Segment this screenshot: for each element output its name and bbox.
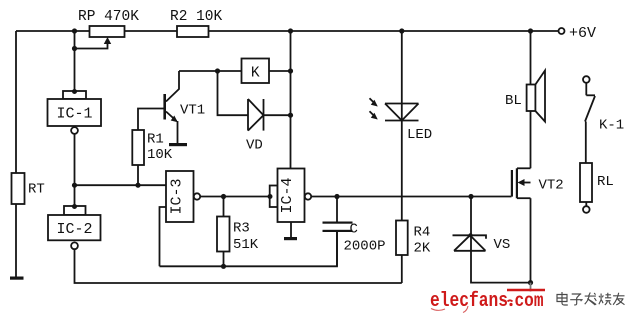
svg-text:VT2: VT2 [539, 178, 564, 194]
watermark chinese 电子发烧友 [557, 292, 625, 305]
switch K-1 [583, 76, 624, 133]
ground tick below source node [530, 283, 532, 292]
node VS top [468, 194, 473, 199]
svg-text:VD: VD [246, 138, 263, 154]
resistor R4 [396, 221, 431, 257]
wire IC-3 second input from bottom line [160, 207, 167, 266]
svg-text:RP 470K: RP 470K [78, 9, 139, 25]
svg-text:R2 10K: R2 10K [170, 9, 223, 25]
wire IC-1 feed vertical [74, 31, 76, 91]
svg-text:51K: 51K [233, 237, 259, 253]
svg-text:IC-4: IC-4 [279, 177, 296, 213]
node bus to LED [399, 28, 404, 33]
capacitor C [323, 197, 386, 267]
diode VD [218, 71, 291, 154]
wire R4 riser [401, 255, 403, 283]
svg-text:IC-3: IC-3 [169, 178, 186, 214]
发 [585, 293, 597, 306]
node K right [288, 68, 293, 73]
svg-text:R1: R1 [147, 132, 164, 148]
transistor VT2 MOSFET [511, 168, 564, 282]
op-amp IC-1 [48, 89, 102, 134]
svg-text:K: K [251, 66, 260, 82]
potentiometer RP body [90, 26, 125, 37]
node R1 bottom junction [135, 183, 140, 188]
svg-text:IC-2: IC-2 [56, 221, 92, 238]
resistor R3 [217, 197, 259, 267]
svg-text:+6V: +6V [569, 25, 596, 42]
node R3 bottom [221, 264, 226, 269]
zener diode VS [453, 197, 531, 283]
svg-text:R4: R4 [414, 225, 431, 241]
svg-text:IC-1: IC-1 [56, 106, 92, 123]
resistor RL [580, 122, 614, 213]
node VT2 source / VS net [528, 280, 533, 285]
potentiometer RP wiper arrow [104, 37, 111, 44]
thermistor RT [12, 173, 25, 204]
svg-text:2000P: 2000P [344, 239, 386, 255]
wire IC-2 feed [74, 185, 76, 206]
svg-text:2K: 2K [414, 241, 431, 257]
node IC-1/IC-2/R1 net [72, 183, 77, 188]
svg-text:RL: RL [597, 174, 614, 190]
svg-text:VT1: VT1 [180, 103, 205, 119]
子 [570, 294, 583, 305]
wire left rail [15, 31, 17, 277]
wire collector to relay K [179, 70, 242, 72]
node bus to K/VD/IC-4 [288, 28, 293, 33]
wire IC-3 out to IC-4 [200, 196, 269, 198]
gate IC-3 [166, 171, 200, 222]
terminal +6V [559, 28, 565, 34]
node R3 top [221, 194, 226, 199]
transistor VT1 [163, 71, 205, 146]
wire wiper to pot [75, 41, 108, 49]
wire feedback bottom line [160, 231, 338, 266]
op-amp IC-2 [48, 204, 101, 249]
svg-text:K-1: K-1 [599, 118, 624, 134]
wire IC-4 ground leg [290, 222, 292, 237]
svg-text:C: C [350, 222, 358, 238]
node VD cathode right [288, 113, 293, 118]
wire gate line IC-4 out to VT2 [311, 196, 511, 198]
watermark elecfans.com [430, 290, 545, 313]
node VD tap [215, 68, 220, 73]
svg-text:VS: VS [494, 237, 511, 253]
node A bus to IC-1 junction [72, 28, 77, 33]
烧 [599, 293, 611, 305]
resistor R2 [177, 26, 209, 37]
wire right rail to IC-4 [290, 31, 292, 169]
node bus to BL [528, 28, 533, 33]
gate IC-4 [268, 169, 312, 223]
wire IC-1 out down [74, 134, 76, 185]
svg-text:10K: 10K [147, 147, 173, 163]
relay K [242, 59, 270, 84]
LED [370, 31, 433, 221]
svg-text:R3: R3 [233, 221, 250, 237]
svg-text:RT: RT [28, 182, 45, 198]
resistor R1 [132, 109, 173, 186]
node wiper junction [72, 46, 77, 51]
电 [557, 292, 568, 305]
wire IC-2 out to bottom bus [75, 249, 402, 283]
svg-text:BL: BL [505, 93, 522, 109]
友 [613, 293, 624, 305]
wire BL drain rail [530, 31, 532, 168]
ground IC-4 [284, 237, 297, 240]
wire top bus +6V rail [16, 30, 559, 32]
svg-text:com: com [515, 290, 544, 312]
ground left rail end bar [10, 277, 24, 280]
svg-text:LED: LED [407, 127, 432, 143]
node C top [334, 194, 339, 199]
speaker BL [505, 71, 545, 122]
wire K to right rail [269, 70, 291, 72]
wire net to IC-3 input [75, 184, 167, 186]
